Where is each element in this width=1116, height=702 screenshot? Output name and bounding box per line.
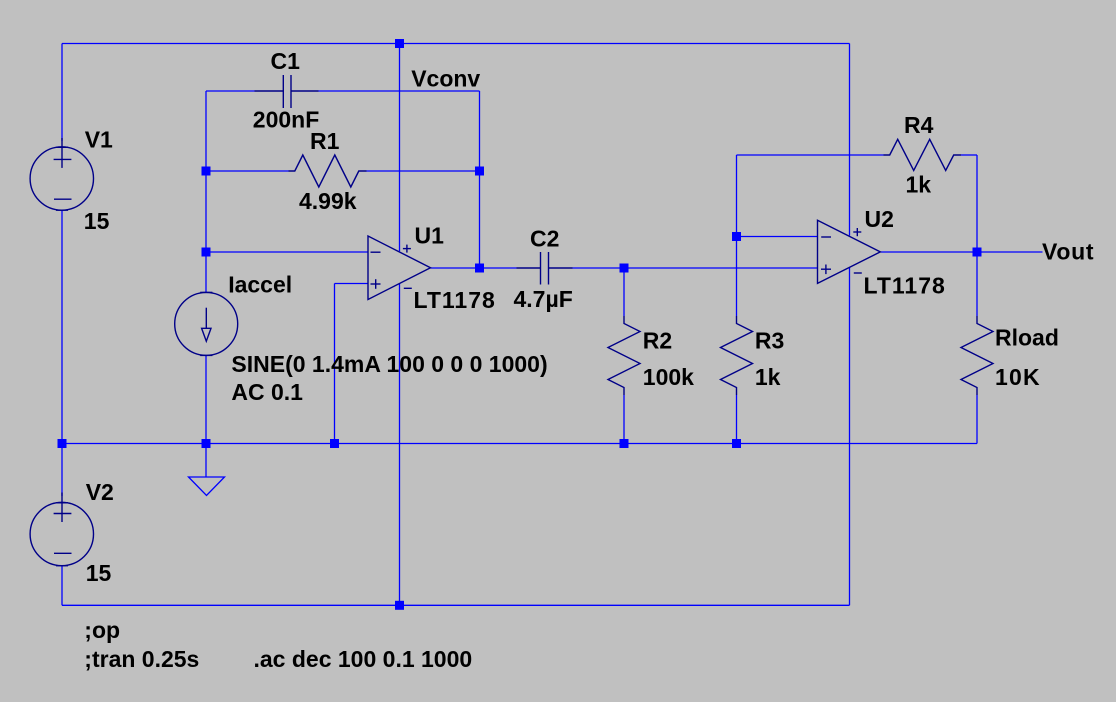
wire Iaccel bottom xyxy=(205,355,207,443)
svg-text:;tran 0.25s: ;tran 0.25s xyxy=(84,646,199,672)
resistor R2 xyxy=(608,316,640,395)
resistor R1 xyxy=(289,155,367,187)
wire C2 to U2 noninverting input xyxy=(573,267,818,269)
wire node A vertical xyxy=(205,91,207,292)
svg-text:15: 15 xyxy=(86,560,112,586)
wire R3 bottom lead xyxy=(736,395,738,444)
capacitor C2 xyxy=(517,267,541,269)
wire R2 top lead xyxy=(623,268,625,316)
wire U1 inverting input xyxy=(206,251,368,253)
svg-text:U1: U1 xyxy=(415,223,445,249)
wire V2 top xyxy=(61,444,63,497)
svg-text:U2: U2 xyxy=(865,206,894,232)
svg-text:Rload: Rload xyxy=(995,325,1059,351)
wire R4 right drop xyxy=(976,155,978,252)
resistor Rload xyxy=(961,316,993,395)
wire R2 bottom lead xyxy=(623,395,625,444)
op-amp U1 xyxy=(368,236,431,300)
svg-text:SINE(0 1.4mA 100 0 0 0 1000): SINE(0 1.4mA 100 0 0 0 1000) xyxy=(231,351,547,377)
node junction mid rail R2 xyxy=(620,439,629,448)
svg-text:1k: 1k xyxy=(755,364,781,390)
wire U1 output to C2 xyxy=(431,267,517,269)
node junction top rail x399 xyxy=(395,39,404,48)
wire Rload bottom lead xyxy=(976,395,978,444)
node junction mid rail x334 xyxy=(330,439,339,448)
svg-text:10K: 10K xyxy=(995,364,1041,390)
wire mid rail (0V) xyxy=(62,443,977,445)
wire Rload top lead xyxy=(976,252,978,316)
svg-text:R4: R4 xyxy=(904,112,934,138)
wire U2 inverting input xyxy=(737,236,818,238)
svg-text:V1: V1 xyxy=(85,127,113,153)
svg-text:Vconv: Vconv xyxy=(411,66,480,92)
svg-text:Iaccel: Iaccel xyxy=(228,272,292,298)
wire V2 bottom xyxy=(61,566,63,606)
svg-text:Vout: Vout xyxy=(1042,239,1094,265)
wire R4 right lead xyxy=(961,154,977,156)
svg-text:1k: 1k xyxy=(906,172,932,198)
node junction A-R1 xyxy=(202,167,211,176)
wire R4 left lead xyxy=(737,154,884,156)
wire U1 power vertical xyxy=(399,44,401,252)
op-amp U2 xyxy=(818,220,881,283)
node junction mid rail R3 xyxy=(732,439,741,448)
svg-text:AC 0.1: AC 0.1 xyxy=(231,379,303,405)
wire V1 bottom to mid rail xyxy=(61,211,63,444)
wire R3 top lead xyxy=(736,237,738,317)
wire top rail xyxy=(62,43,850,45)
node junction U1 output xyxy=(475,264,484,273)
svg-text:LT1178: LT1178 xyxy=(414,287,496,313)
svg-text:4.7µF: 4.7µF xyxy=(514,286,573,312)
svg-text:4.99k: 4.99k xyxy=(299,188,357,214)
wire V1 top xyxy=(61,44,63,142)
svg-text:100k: 100k xyxy=(643,364,694,390)
node junction mid rail ground xyxy=(202,439,211,448)
svg-text:;op: ;op xyxy=(84,617,120,643)
svg-text:R2: R2 xyxy=(643,328,672,354)
current source Iaccel xyxy=(175,292,238,355)
node junction U2 output Vout xyxy=(973,248,982,257)
svg-text:V2: V2 xyxy=(86,479,114,505)
wire R1 branch xyxy=(206,170,289,172)
wire C1 top branch xyxy=(206,90,255,92)
node junction bottom rail x399 xyxy=(395,601,404,610)
wire U2 power vertical xyxy=(849,44,851,236)
node junction R3-R4 xyxy=(732,232,741,241)
svg-text:C1: C1 xyxy=(271,48,301,74)
wire bottom rail xyxy=(62,604,850,606)
svg-text:LT1178: LT1178 xyxy=(864,273,946,299)
wire R4 left drop xyxy=(736,155,738,237)
wire Vout stub xyxy=(977,251,1043,253)
resistor R4 xyxy=(884,139,962,170)
wire Vconv vertical xyxy=(479,91,481,268)
resistor R3 xyxy=(721,316,753,395)
svg-text:C2: C2 xyxy=(530,226,559,252)
svg-text:R3: R3 xyxy=(755,328,784,354)
wire ground stub xyxy=(205,444,207,478)
node junction A-input xyxy=(202,248,211,257)
svg-text:R1: R1 xyxy=(310,128,340,154)
voltage source V1 xyxy=(30,147,93,210)
svg-text:15: 15 xyxy=(84,208,110,234)
svg-text:.ac dec 100 0.1 1000: .ac dec 100 0.1 1000 xyxy=(254,646,473,672)
ground xyxy=(189,477,225,496)
capacitor C1 xyxy=(255,90,284,92)
wire U1 noninverting drop to mid rail xyxy=(334,284,336,444)
wire U2 output xyxy=(881,251,978,253)
node junction C2-R2 xyxy=(620,264,629,273)
node junction R1-Vconv xyxy=(475,167,484,176)
wire U1 noninverting input xyxy=(335,283,369,285)
voltage source V2 xyxy=(30,502,93,565)
node junction mid rail V1V2 xyxy=(58,439,67,448)
